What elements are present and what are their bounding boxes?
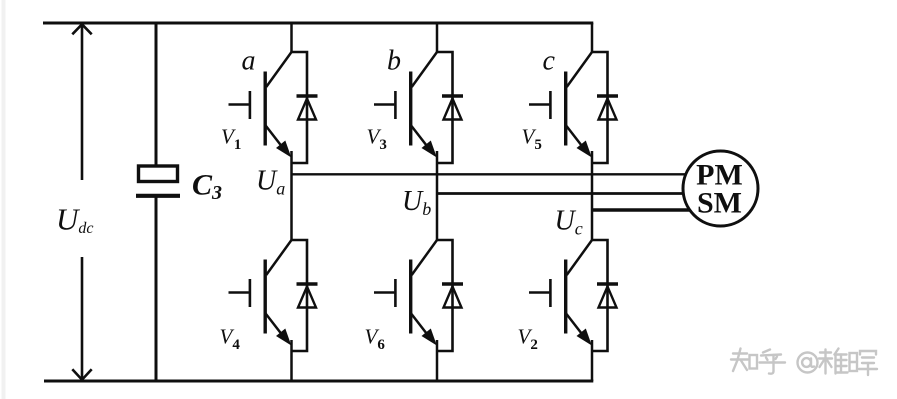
freewheeling diode across V4 xyxy=(292,240,318,351)
svg-text:V4: V4 xyxy=(220,325,241,354)
svg-text:V3: V3 xyxy=(367,125,387,154)
Udc dimension arrow line (upper segment with up arrowhead) xyxy=(72,24,91,180)
freewheeling diode across V3 xyxy=(437,52,463,163)
wire: V6 emitter to bottom bus xyxy=(436,340,439,381)
svg-text:Uc: Uc xyxy=(555,206,583,239)
freewheeling diode across V2 xyxy=(592,240,618,351)
svg-text:V5: V5 xyxy=(522,125,542,154)
wire: V2 emitter to bottom bus xyxy=(591,340,594,381)
svg-text:C3: C3 xyxy=(192,169,222,205)
transistor V2 (IGBT) xyxy=(529,240,592,346)
transistor V1 (IGBT) xyxy=(229,52,292,158)
svg-text:c: c xyxy=(543,45,556,76)
svg-text:Udc: Udc xyxy=(56,202,94,238)
svg-text:V6: V6 xyxy=(365,325,386,354)
transistor V6 (IGBT) xyxy=(374,240,437,346)
svg-text:a: a xyxy=(242,45,256,76)
wire: phase b line to motor xyxy=(437,192,692,195)
transistor V5 (IGBT) xyxy=(529,52,592,158)
wire: top bus down to V5 collector (phase c leg) xyxy=(591,23,594,53)
svg-text:V2: V2 xyxy=(518,325,538,354)
freewheeling diode across V5 xyxy=(592,52,618,163)
wire: phase a line to motor xyxy=(292,173,693,175)
Udc dimension arrow line (lower segment with down arrowhead) xyxy=(72,257,91,380)
svg-text:Ua: Ua xyxy=(256,166,285,199)
node Ub: phase b output vertical wire between V3 and V6 xyxy=(436,151,439,241)
wire: top bus down to V3 collector (phase b leg) xyxy=(436,23,439,53)
freewheeling diode across V1 xyxy=(292,52,318,163)
wire: phase c line to motor xyxy=(592,208,692,212)
bottom DC bus (-) wire xyxy=(44,380,593,383)
top DC bus (+) wire xyxy=(43,22,593,25)
transistor V3 (IGBT) xyxy=(374,52,437,158)
watermark: Zhihu logo text xyxy=(731,349,877,376)
node Uc: phase c output vertical wire between V5 and V2 xyxy=(591,151,594,241)
motor M1: PMSM circle xyxy=(683,151,758,226)
wire: capacitor C3 to bottom bus xyxy=(155,197,158,381)
svg-text:V1: V1 xyxy=(221,125,241,154)
svg-text:Ub: Ub xyxy=(402,186,431,219)
wire: V4 emitter to bottom bus xyxy=(290,340,293,381)
node Ua: phase a output vertical wire between V1 and V4 xyxy=(290,151,293,241)
transistor V4 (IGBT) xyxy=(229,240,292,346)
capacitor C3 (polarized, box plate + bar plate) xyxy=(136,166,180,196)
wire: top bus to capacitor C3 xyxy=(155,23,158,166)
svg-text:SM: SM xyxy=(697,187,742,220)
svg-text:b: b xyxy=(387,45,401,76)
freewheeling diode across V6 xyxy=(437,240,463,351)
wire: top bus down to V1 collector (phase a leg) xyxy=(290,23,293,53)
